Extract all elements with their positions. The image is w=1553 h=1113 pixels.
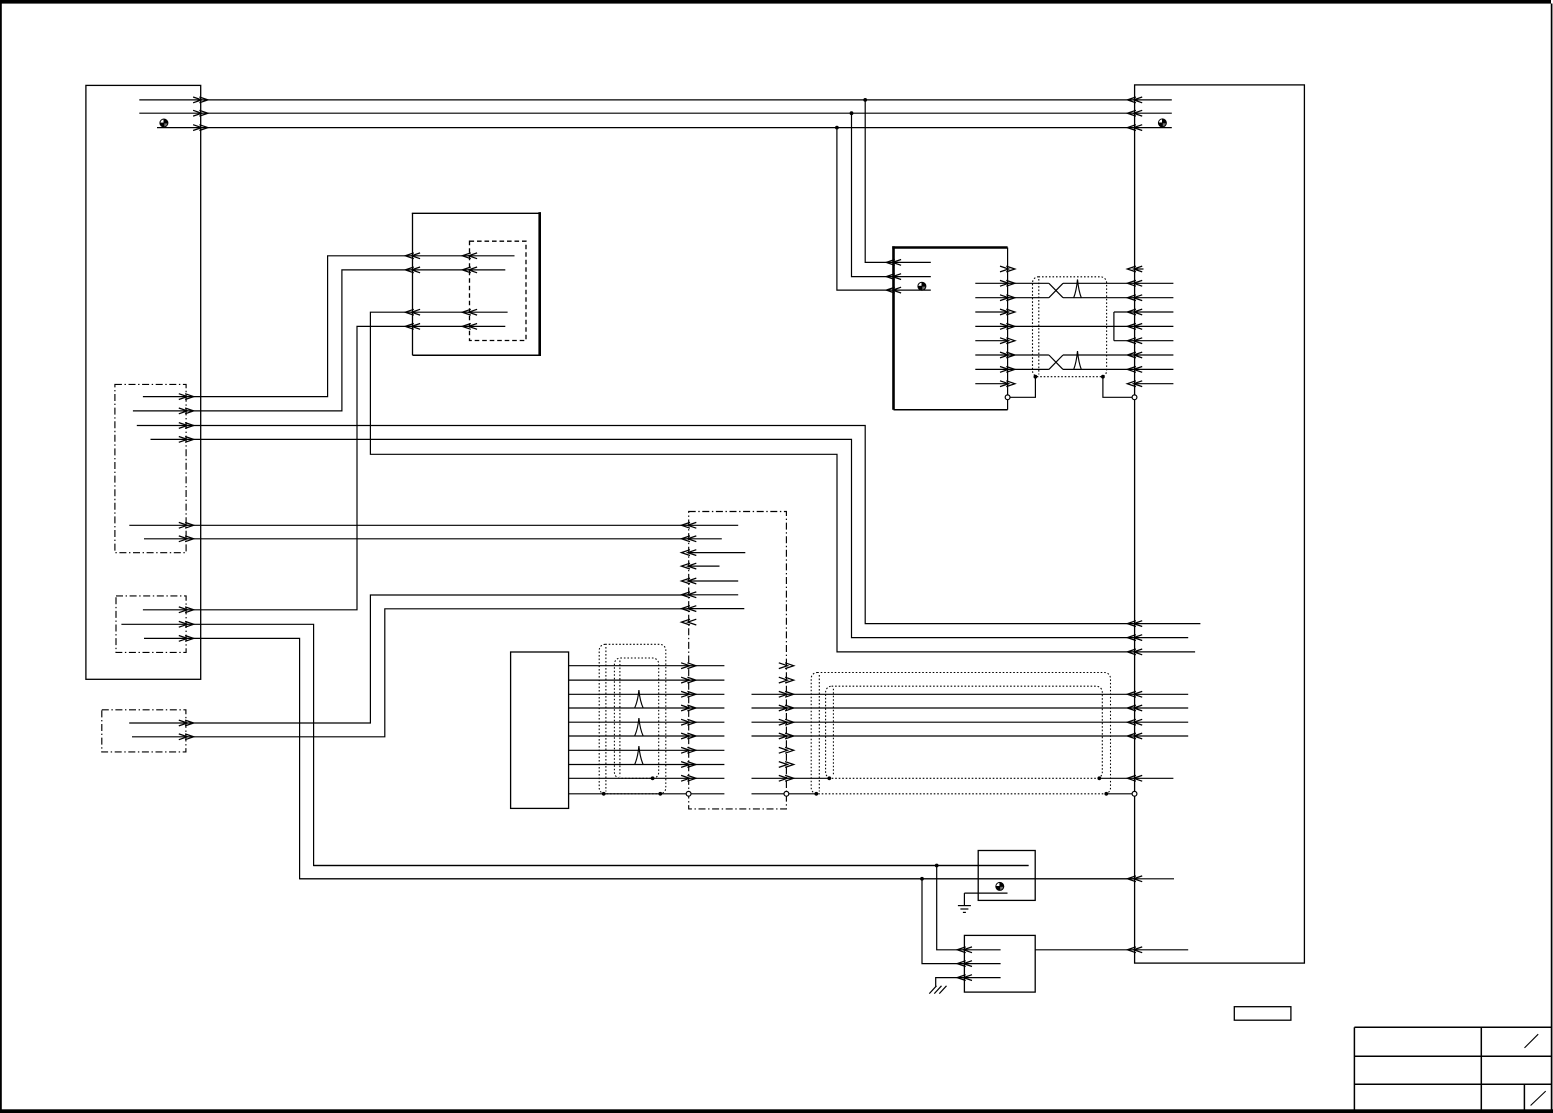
wire c5 resumed to J2	[752, 721, 1135, 723]
D4 inner stub d3	[689, 552, 746, 554]
shield circle at D4 left edge	[686, 791, 691, 796]
wire c6 from U3	[569, 735, 725, 737]
earth symbol at J2 bus	[1158, 119, 1166, 127]
J2 inner stub 652	[1135, 651, 1196, 653]
right connector box J2	[1135, 85, 1305, 963]
shield outline inner (U3 side)	[614, 658, 658, 778]
wire A branch to B2 pin1	[937, 866, 965, 950]
dashed sub-module in U2	[470, 241, 527, 340]
arrow into J2 bus 3	[1134, 125, 1143, 131]
arrow into J2 c9	[1134, 775, 1143, 781]
filter box B1	[978, 851, 1035, 901]
arrow out of J1 bus 3	[193, 125, 202, 131]
D4 inner stub d4	[689, 565, 720, 567]
arrow D1 row2	[179, 408, 188, 414]
arrow c3 at D4 right edge	[779, 691, 788, 697]
wire c10 to J2 shield circle	[1106, 793, 1132, 795]
wire c10 (shield drain)	[569, 793, 687, 795]
arrow at D4 pin d7	[688, 606, 697, 612]
D4 inner stub d1	[689, 524, 739, 526]
shield drain right	[1101, 375, 1105, 379]
arrow out of U1 r1	[1000, 266, 1009, 272]
arrow c9 at D4 left edge	[681, 775, 690, 781]
arrow c5 at D4 left edge	[681, 719, 690, 725]
twist symbol pair c3/c4	[635, 690, 644, 708]
arrow D2 row2	[179, 621, 188, 627]
harness group box D3	[102, 710, 186, 752]
wire A into B1	[314, 865, 1029, 867]
arrow into J2 row 652	[1134, 649, 1143, 655]
J2 inner stub r6	[1135, 340, 1174, 342]
J2 inner stub c5	[1135, 721, 1189, 723]
wire r6 stub	[1114, 340, 1135, 342]
arrow out of J1 bus 1	[193, 97, 202, 103]
arrow D1 row5	[179, 522, 188, 528]
arrow c1 at D4 left edge	[681, 663, 690, 669]
U2 pin wire q2	[413, 269, 506, 271]
wire bus 2 drop to U1	[852, 113, 931, 276]
arrow c1 at D4 right edge	[779, 663, 788, 669]
wire D2 row2 to B1	[121, 624, 1028, 865]
shield outline outer (U3 side)	[599, 644, 666, 794]
shield terminal circle at U1	[1005, 395, 1010, 400]
D4 inner stub d6	[689, 594, 739, 596]
wire D1 row3 to J2	[137, 426, 1135, 624]
arrow D1 row3	[179, 423, 188, 429]
arrow out of U1 r3	[1000, 295, 1009, 301]
shield tie outer-left	[602, 792, 606, 796]
U1 inner stub r5	[975, 325, 1007, 327]
arrow into J2 row 878	[1134, 876, 1143, 882]
shield outline inner (J2 side)	[826, 686, 1103, 778]
filter box B2	[964, 935, 1035, 992]
J2 inner stub 637	[1135, 637, 1189, 639]
arrow out of U1 r9	[1000, 381, 1009, 387]
wire D1 row1 to U2 q1	[143, 256, 413, 397]
J2 inner stub r4	[1135, 311, 1174, 313]
J2 inner stub r2	[1135, 282, 1174, 284]
arrow c7 at D4 left edge	[681, 747, 690, 753]
twist symbol pair 1	[1074, 279, 1082, 298]
earth ground symbol	[963, 893, 965, 906]
earth symbol in U1	[918, 282, 926, 290]
shield tie inner	[651, 776, 655, 780]
arrow D2 row1	[179, 607, 188, 613]
wire c6 resumed to J2	[752, 735, 1135, 737]
arrow c6 at D4 right edge	[779, 733, 788, 739]
twist symbol pair 2	[1074, 351, 1082, 370]
arrow into J2 r1	[1134, 266, 1143, 272]
D4 inner stub d2	[689, 538, 722, 540]
wire top bus 3	[157, 127, 1172, 129]
arrow D1 row1	[179, 394, 188, 400]
wire D1 row4 to J2	[151, 439, 1135, 637]
arrow at U2 edge q1	[412, 253, 421, 259]
arrow into J2 row 949	[1134, 947, 1143, 953]
junction wire B	[920, 877, 924, 881]
sheet frame right border	[1551, 4, 1553, 1113]
J2 inner stub r1	[1135, 268, 1144, 270]
sheet frame left border	[0, 0, 2, 1113]
arrow out of U1 r6	[1000, 338, 1009, 344]
D4 inner stub d5	[689, 580, 739, 582]
title block	[1354, 1026, 1551, 1028]
arrow out of J1 bus 2	[193, 110, 202, 116]
shield drain left	[1034, 375, 1038, 379]
J2 inner stub 623	[1135, 623, 1201, 625]
shield terminal circle at J2	[1132, 395, 1137, 400]
revision tag box	[1234, 1007, 1291, 1021]
U1 inner stub r4	[975, 311, 1007, 313]
arrow into J2 c5	[1134, 719, 1143, 725]
twisted pair 1 wires r2/r3	[1008, 282, 1049, 284]
shield outline outer inner-line	[605, 647, 607, 792]
J2 inner stub r7	[1135, 354, 1174, 356]
shield circle at J2	[1132, 791, 1137, 796]
U1 inner stub r7	[975, 354, 1007, 356]
wire B2 out to J2	[1035, 949, 1134, 951]
J2 inner stub r8	[1135, 368, 1174, 370]
chassis ground symbol	[929, 986, 936, 994]
wire c2 from U3	[569, 679, 725, 681]
arrow at sub-module q3	[469, 309, 478, 315]
arrow into J2 c4	[1134, 705, 1143, 711]
wire D1 row6 to D4	[144, 538, 689, 540]
U1 inner stub r8	[975, 368, 1007, 370]
arrow D1 row6	[179, 536, 188, 542]
shield outline inner inner-line	[619, 661, 621, 777]
arrow c2 at D4 right edge	[779, 677, 788, 683]
shield tie outer-right	[658, 792, 662, 796]
J2 inner stub 949	[1135, 949, 1189, 951]
J2 inner stub 878	[1135, 878, 1174, 880]
J2 inner stub r9	[1135, 383, 1174, 385]
arrow into J2 r5	[1134, 324, 1143, 330]
title block slash 1	[1525, 1034, 1539, 1048]
wire c5 from U3	[569, 721, 725, 723]
U1 inner stub r3	[975, 297, 1007, 299]
wire c4 from U3	[569, 707, 725, 709]
wire c7 from U3	[569, 749, 725, 751]
arrow c7 at D4 right edge	[779, 747, 788, 753]
arrow c4 at D4 right edge	[779, 705, 788, 711]
U1 inner stub r6	[975, 340, 1007, 342]
option box U2	[412, 212, 540, 214]
cable shield outline (twisted pairs)	[1033, 277, 1107, 377]
wire D1 row5 to D4	[129, 524, 688, 526]
arrow into J2 r8	[1134, 367, 1143, 373]
wire D2 row3 to J2 (through B1)	[144, 638, 1135, 878]
earth symbol in B1	[996, 882, 1004, 890]
junction wire A	[935, 864, 939, 868]
wire D3 row1 to D4	[129, 595, 689, 723]
arrow at D4 pin d3	[688, 550, 697, 556]
arrow into J2 bus 1	[1134, 97, 1143, 103]
arrow out of U1 r7	[1000, 352, 1009, 358]
shield circle at D4 right edge	[784, 791, 789, 796]
arrow c9 at D4 right edge	[779, 775, 788, 781]
arrow out of U1 r5	[1000, 324, 1009, 330]
wire D1 row2 to U2 q2	[133, 270, 413, 411]
sheet frame bottom border	[0, 1109, 1553, 1113]
wire bus 1 drop to U1	[865, 100, 931, 263]
arrow into J2 r3	[1134, 295, 1143, 301]
arrow c8 at D4 right edge	[779, 762, 788, 768]
junction bus 2	[850, 111, 854, 115]
arrow out of U1 r8	[1000, 367, 1009, 373]
cable assembly box D4	[689, 512, 787, 809]
arrow into U1 pin 3	[893, 287, 902, 293]
wire B through B1 to J2	[300, 878, 1135, 880]
J2 inner stub r3	[1135, 297, 1174, 299]
arrow out of U1 r4	[1000, 309, 1009, 315]
wire D2 row1 to U2 q4	[143, 326, 413, 609]
wire c9 resumed (shield inner)	[752, 777, 830, 779]
arrow D3 row2	[179, 734, 188, 740]
arrow into J2 row 623	[1134, 621, 1143, 627]
arrow at U2 edge q3	[412, 309, 421, 315]
arrow c4 at D4 left edge	[681, 705, 690, 711]
terminal box U3	[511, 652, 569, 808]
B2 inner stub 2	[964, 963, 1000, 965]
J2 inner stub c3	[1135, 693, 1189, 695]
arrow into J2 r9	[1134, 381, 1143, 387]
arrow c3 at D4 left edge	[681, 691, 690, 697]
U1 inner stub r9	[975, 383, 1007, 385]
arrow into J2 row 637	[1134, 635, 1143, 641]
wire c3 resumed to J2	[752, 693, 1135, 695]
U1 inner stub r2	[975, 282, 1007, 284]
arrow c2 at D4 left edge	[681, 677, 690, 683]
interface box U1	[892, 246, 1007, 249]
arrow into J2 c6	[1134, 733, 1143, 739]
twisted pair 2 wires r7/r8	[1008, 354, 1049, 356]
U2 pin wire q3	[413, 311, 508, 313]
arrow D1 row4	[179, 437, 188, 443]
arrow into U1 pin 1	[893, 260, 902, 266]
sheet frame top border	[0, 0, 1551, 4]
arrow into J2 bus 2	[1134, 110, 1143, 116]
wire c9 from U3	[569, 777, 725, 779]
arrow into J2 r6	[1134, 338, 1143, 344]
J2 inner stub r5	[1135, 325, 1174, 327]
J2 inner stub c4	[1135, 707, 1189, 709]
junction bus 3	[835, 126, 839, 130]
wire c1 from U3	[569, 665, 725, 667]
U2 pin wire q1	[413, 255, 515, 257]
U2 pin wire q4	[413, 325, 506, 327]
wire c8 from U3	[569, 764, 725, 766]
arrow at D4 pin d2	[688, 536, 697, 542]
arrow D3 row1	[179, 720, 188, 726]
wire c10 to outer shield box	[789, 793, 817, 795]
arrow at D4 pin d5	[688, 578, 697, 584]
wire r5	[1008, 325, 1135, 327]
harness group box D2	[116, 596, 186, 653]
arrow into J2 r4	[1134, 309, 1143, 315]
arrow at D4 pin d4	[688, 563, 697, 569]
J2 inner stub c9	[1135, 777, 1174, 779]
twist symbol pair c5/c6	[635, 718, 644, 736]
arrow at D4 pin d1	[688, 522, 697, 528]
arrow into B2 pin 1	[963, 947, 972, 953]
B2 inner stub 3	[964, 977, 1000, 979]
shield outline outer inner-line (J2 side)	[818, 675, 820, 792]
wire bus 3 drop to U1	[837, 128, 931, 291]
wire r4 stub	[1114, 311, 1135, 313]
wire c10 across D4 with shield circles	[691, 793, 724, 795]
wire D3 row2 to D4	[132, 609, 689, 737]
shield outline inner inner-line (J2 side)	[832, 689, 834, 776]
wire c4 resumed to J2	[752, 707, 1135, 709]
arrow c8 at D4 left edge	[681, 762, 690, 768]
arrow at sub-module q2	[469, 267, 478, 273]
arrow into J2 r7	[1134, 352, 1143, 358]
arrow at D4 pin d8	[688, 619, 697, 625]
B2 inner stub 1	[964, 949, 1000, 951]
wire B branch to B2 pin2	[922, 879, 964, 964]
arrow at D4 pin d6	[688, 592, 697, 598]
arrow at U2 edge q4	[412, 324, 421, 330]
left connector box J1	[86, 85, 201, 679]
arrow into U1 pin 2	[893, 274, 902, 280]
junction bus 1	[863, 98, 867, 102]
arrow at sub-module q1	[469, 253, 478, 259]
arrow c5 at D4 right edge	[779, 719, 788, 725]
twist symbol pair c7/c8	[635, 746, 644, 765]
earth symbol at J1 bus	[160, 119, 168, 127]
arrow into B2 pin 3	[963, 975, 972, 981]
arrow c6 at D4 left edge	[681, 733, 690, 739]
arrow into J2 c3	[1134, 691, 1143, 697]
arrow into J2 r2	[1134, 280, 1143, 286]
wire B1 ground pin	[964, 892, 1007, 894]
D4 inner stub d7	[689, 608, 745, 610]
arrow out of U1 r2	[1000, 280, 1009, 286]
jumper bracket r4-r6	[1113, 312, 1115, 341]
shield outline outer (J2 side)	[811, 673, 1110, 794]
title block slash 2	[1531, 1091, 1546, 1105]
arrow D2 row3	[179, 636, 188, 642]
arrow into B2 pin 2	[963, 961, 972, 967]
wire U2 q3 to J2	[370, 312, 1134, 652]
wire B2 pin3 with chassis ground	[936, 978, 965, 987]
wire top bus 2	[139, 112, 1172, 114]
cable shield inner line	[1038, 279, 1040, 375]
arrow at U2 edge q2	[412, 267, 421, 273]
arrow at sub-module q4	[469, 324, 478, 330]
J2 inner stub c6	[1135, 735, 1189, 737]
wire c3 from U3	[569, 693, 725, 695]
harness group box D1	[115, 384, 186, 552]
wire top bus 1	[139, 99, 1172, 101]
